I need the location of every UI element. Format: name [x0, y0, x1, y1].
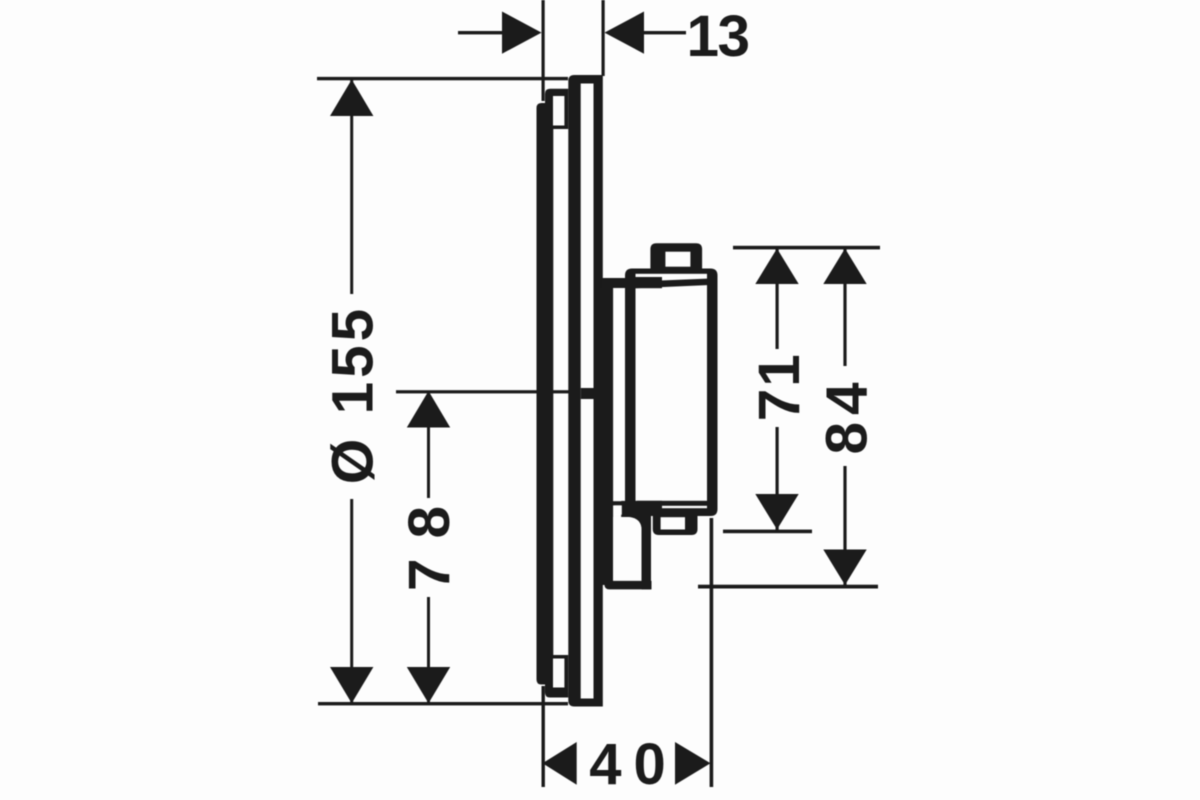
dim 84 bottom extension line [698, 585, 878, 589]
dim 155 bottom extension line [318, 702, 568, 705]
dim 40 left arrowhead [543, 742, 577, 785]
dim 40 left extension line [542, 686, 545, 787]
dim 78 top arrowhead [407, 391, 450, 428]
dim 155 line upper [350, 80, 353, 294]
dim 78 line upper [427, 392, 430, 498]
svg-text:78: 78 [397, 486, 462, 591]
dim 71 line lower [776, 427, 779, 530]
dim 71 84 top extension line [733, 246, 880, 250]
dim 84 top arrowhead [823, 249, 866, 285]
dim 13 right arrowhead [605, 12, 645, 54]
supply pipe bottom cap [604, 581, 651, 590]
supply pipe corner strip [621, 501, 627, 518]
dim 155 top extension line [317, 77, 568, 80]
dim 84 bottom arrowhead [823, 550, 866, 586]
supply pipe notch [615, 505, 622, 514]
dim 71 line upper [776, 248, 779, 349]
dim 78 bottom arrowhead [407, 667, 450, 703]
dim 71 bottom arrowhead [755, 494, 798, 530]
dim 71 top arrowhead [755, 249, 798, 285]
plate back cover channel [568, 75, 603, 707]
dim 78 line lower [427, 597, 430, 703]
dim 40 right extension line [710, 518, 714, 787]
dim 13 right arrow line [644, 31, 686, 34]
valve body bottom seam [637, 501, 707, 506]
supply pipe right wall [642, 509, 652, 589]
bottom tab [653, 515, 698, 535]
dim 13 left arrowhead [502, 12, 542, 54]
plate mid seam bar [581, 388, 595, 399]
plate top clip [545, 89, 568, 129]
flange to body top bar [601, 278, 637, 288]
plate bottom clip interior [553, 659, 564, 688]
valve body interior [636, 274, 708, 508]
plate front cover [537, 103, 554, 685]
valve body outer [625, 269, 718, 517]
valve body bottom seam left fill [636, 501, 663, 516]
dim 40 right arrowhead [675, 742, 711, 785]
svg-text:71: 71 [747, 352, 812, 421]
valve body top seam left fill [636, 277, 663, 288]
wall flange column [601, 278, 613, 585]
dim 78 top extension line [396, 390, 570, 393]
dim 155 top arrowhead [330, 80, 373, 117]
plate back cover interior [581, 84, 594, 699]
dim 13 right extension line [602, 0, 605, 76]
top button interior [665, 252, 690, 267]
supply pipe divider bar [613, 501, 626, 505]
dim 84 line lower [843, 466, 846, 585]
dim 71 bottom extension line [723, 530, 812, 534]
svg-text:40: 40 [589, 732, 678, 797]
dim 155 bottom arrowhead [330, 667, 373, 703]
supply pipe interior [613, 517, 641, 581]
plate bottom clip [545, 655, 568, 698]
dim 13 left arrow line [458, 31, 504, 34]
bottom tab interior [661, 517, 685, 529]
plate top clip interior [553, 96, 564, 126]
valve body top seam [636, 279, 708, 289]
dim 13 left extension line [542, 0, 545, 101]
svg-text:84: 84 [814, 375, 879, 454]
dim 155 line lower [350, 499, 353, 703]
supply pipe corner fillet [621, 505, 651, 530]
top button [650, 243, 702, 269]
svg-text:Ø 155: Ø 155 [321, 305, 386, 484]
svg-text:13: 13 [686, 4, 748, 69]
dim 84 line upper [843, 248, 846, 366]
